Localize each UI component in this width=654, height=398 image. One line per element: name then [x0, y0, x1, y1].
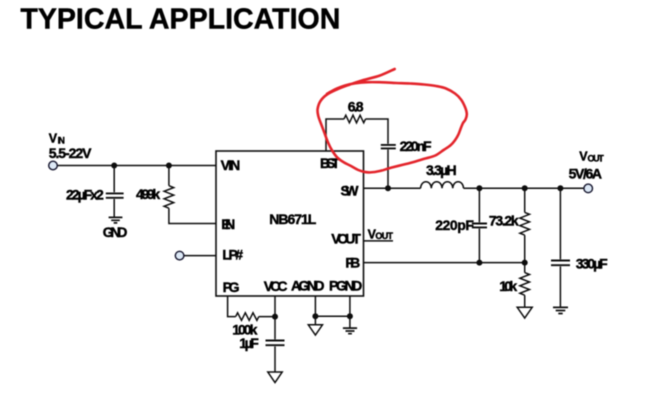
svg-text:VOUT: VOUT — [331, 230, 361, 246]
svg-text:10k: 10k — [499, 278, 517, 294]
svg-text:PGND: PGND — [329, 278, 362, 294]
svg-text:6.8: 6.8 — [348, 98, 364, 114]
svg-text:1µF: 1µF — [239, 335, 259, 351]
svg-text:73.2k: 73.2k — [489, 212, 519, 228]
svg-text:VCC: VCC — [264, 278, 288, 294]
svg-text:5.5-22V: 5.5-22V — [49, 145, 92, 161]
svg-text:3.3µH: 3.3µH — [426, 162, 457, 178]
svg-text:OUT: OUT — [588, 153, 605, 163]
svg-text:499k: 499k — [136, 186, 160, 202]
svg-text:FB: FB — [345, 254, 360, 270]
svg-text:OUT: OUT — [375, 231, 393, 241]
svg-text:VIN: VIN — [221, 157, 241, 173]
svg-text:22µFx2: 22µFx2 — [66, 186, 104, 202]
svg-text:PG: PG — [223, 279, 240, 295]
svg-text:TYPICAL APPLICATION: TYPICAL APPLICATION — [20, 3, 340, 35]
svg-text:220pF: 220pF — [435, 217, 474, 233]
svg-text:220nF: 220nF — [400, 138, 432, 154]
svg-text:GND: GND — [103, 224, 128, 240]
svg-text:SW: SW — [341, 182, 360, 198]
svg-text:5V/6A: 5V/6A — [569, 165, 602, 181]
svg-text:V: V — [49, 131, 58, 145]
svg-text:NB671L: NB671L — [269, 211, 316, 227]
svg-text:LP#: LP# — [222, 246, 243, 262]
svg-text:330µF: 330µF — [576, 256, 608, 272]
svg-text:AGND: AGND — [291, 278, 325, 294]
svg-text:EN: EN — [221, 216, 235, 232]
